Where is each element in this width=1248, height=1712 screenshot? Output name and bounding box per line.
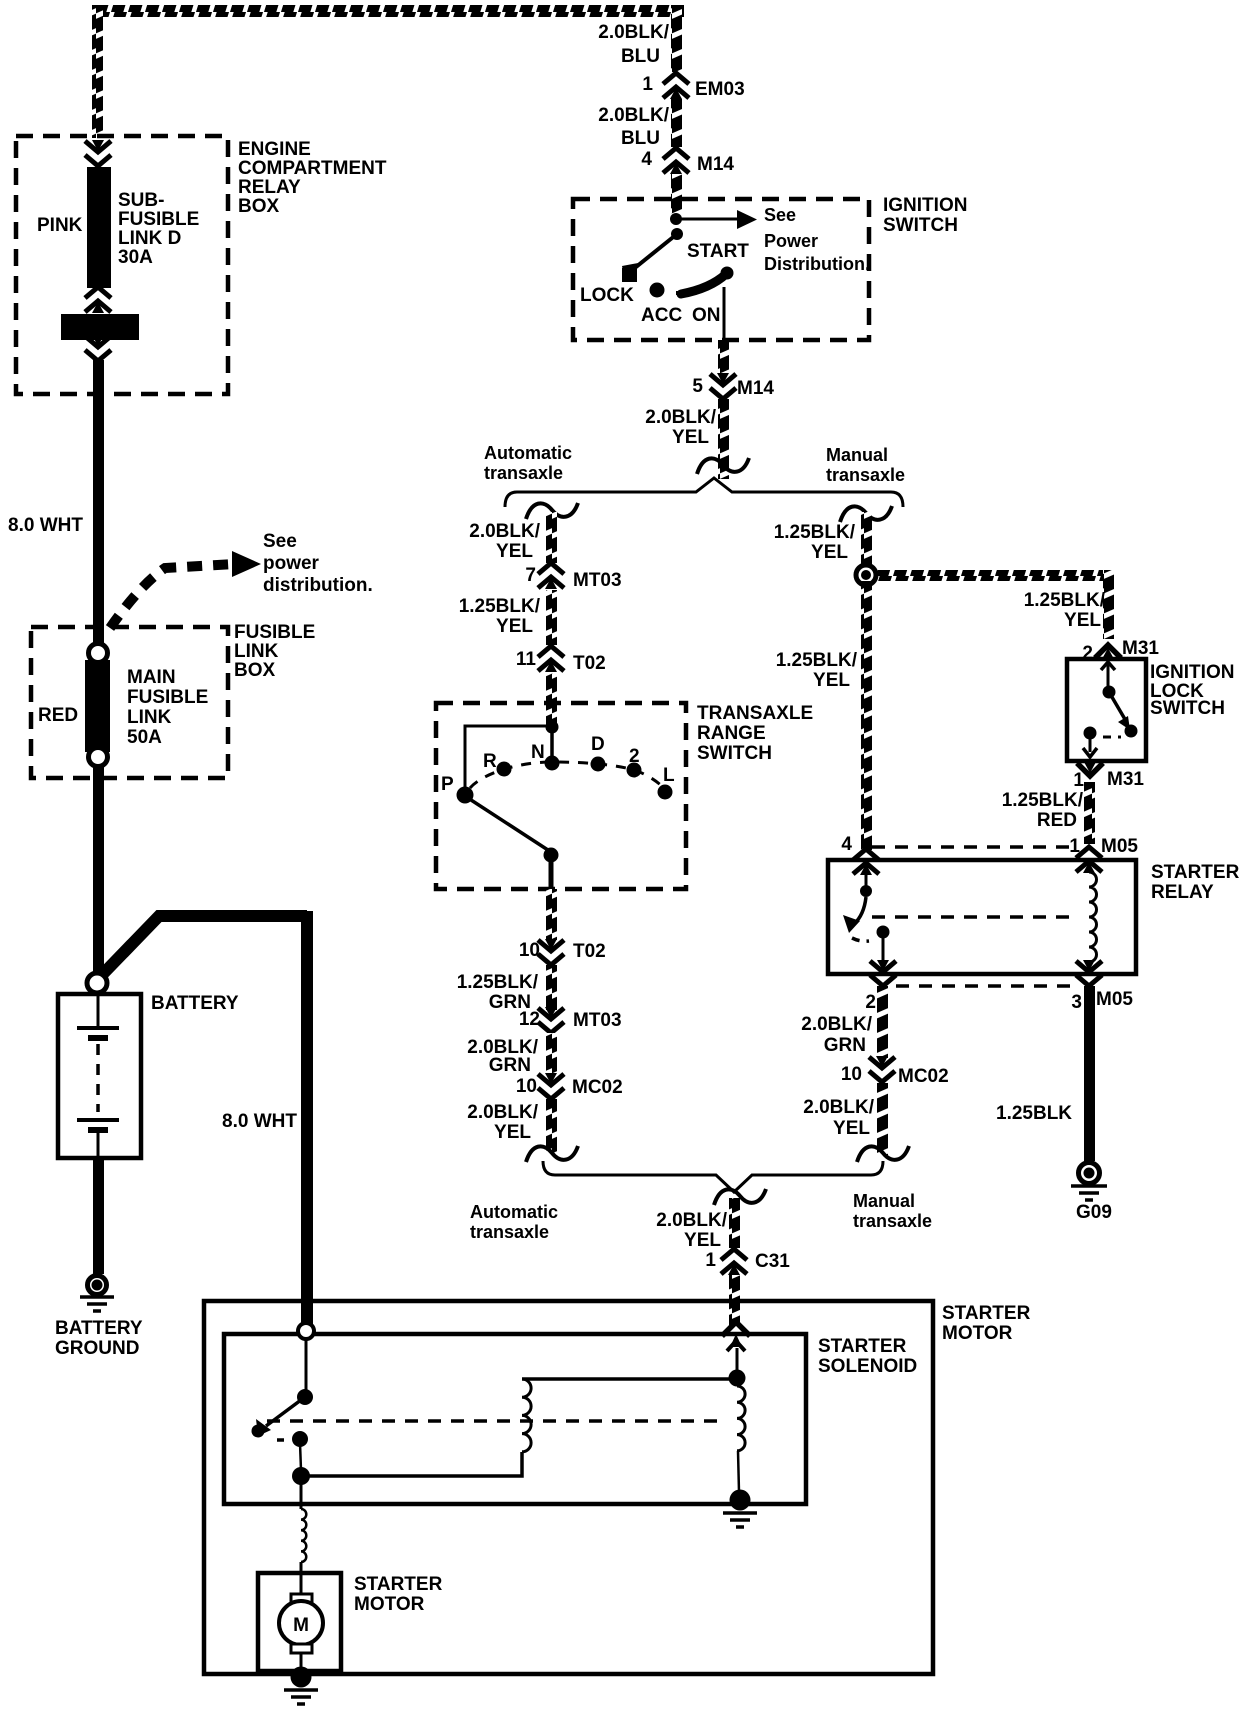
wire: hatched drop to engine compartment relay box xyxy=(92,5,103,138)
svg-text:SWITCH: SWITCH xyxy=(1150,698,1225,719)
svg-text:1.25BLK/: 1.25BLK/ xyxy=(774,522,856,543)
svg-text:2.0BLK/: 2.0BLK/ xyxy=(645,407,716,428)
svg-text:2.0BLK/: 2.0BLK/ xyxy=(598,105,669,126)
wire: junction to P contact xyxy=(465,726,552,790)
svg-text:BATTERY: BATTERY xyxy=(55,1318,143,1339)
sub-fusible link D 30A (PINK) xyxy=(87,167,111,288)
svg-text:2.0BLK/: 2.0BLK/ xyxy=(469,521,540,542)
svg-text:MAIN: MAIN xyxy=(127,667,176,688)
svg-text:distribution.: distribution. xyxy=(263,575,373,596)
svg-text:M14: M14 xyxy=(737,378,774,399)
svg-text:12: 12 xyxy=(519,1009,540,1030)
break symbol bottom of automatic branch xyxy=(526,1146,578,1162)
svg-text:8.0 WHT: 8.0 WHT xyxy=(222,1111,297,1132)
svg-text:MOTOR: MOTOR xyxy=(942,1323,1013,1344)
svg-text:1.25BLK/: 1.25BLK/ xyxy=(1024,590,1106,611)
motor brush bottom xyxy=(291,1644,312,1653)
dashed contact arc P-R-N-D-2-L xyxy=(470,762,665,789)
svg-text:YEL: YEL xyxy=(811,542,848,563)
wire: 2.0BLK/YEL automatic branch xyxy=(546,512,557,563)
connector chevron into solenoid (C31 wire) xyxy=(722,1322,750,1336)
svg-text:RELAY: RELAY xyxy=(238,177,301,198)
svg-text:Manual: Manual xyxy=(853,1191,915,1211)
wire: 2.0BLK/GRN xyxy=(546,1033,557,1075)
wire: battery negative to ground xyxy=(93,1158,104,1274)
wire: hatched to ignition lock switch (horizontal) xyxy=(866,570,1114,581)
wire: 8.0 WHT branch to starter solenoid (diagonal+horizontal) xyxy=(99,916,307,978)
battery xyxy=(58,994,141,1158)
svg-text:STARTER: STARTER xyxy=(1151,862,1240,883)
dashed link pin4 to pin1 xyxy=(872,845,1076,849)
svg-text:LINK: LINK xyxy=(127,707,172,728)
dashed pin2 to pin3 link xyxy=(896,984,1080,988)
motor ground xyxy=(291,1667,312,1688)
break symbol bottom of manual branch xyxy=(857,1146,909,1162)
wire: 1.25BLK/RED to starter relay pin 1 xyxy=(1084,782,1095,844)
svg-text:2.0BLK/: 2.0BLK/ xyxy=(467,1102,538,1123)
connector chevron into relay pin 4 xyxy=(853,849,879,875)
svg-text:50A: 50A xyxy=(127,727,162,748)
svg-text:SWITCH: SWITCH xyxy=(883,215,958,236)
starter solenoid box xyxy=(224,1334,806,1504)
svg-text:4: 4 xyxy=(641,149,652,170)
svg-text:RED: RED xyxy=(38,705,78,726)
svg-text:1.25BLK/: 1.25BLK/ xyxy=(457,972,539,993)
solenoid pull-in coil circuit xyxy=(301,1452,522,1476)
wire: hatched drop to ignition lock switch xyxy=(1103,570,1114,639)
contact 2 xyxy=(627,763,642,778)
wire: 2.0BLK/BLU hatched drop to ignition switch xyxy=(671,5,682,72)
contact L xyxy=(658,785,673,800)
wire: 8.0 WHT vertical down to starter solenoid xyxy=(301,911,313,1330)
wire: junction to N contact xyxy=(550,727,554,762)
connector chevron relay pin 2 xyxy=(870,960,896,986)
dashed plunger link xyxy=(267,1419,726,1423)
svg-text:BATTERY: BATTERY xyxy=(151,993,239,1014)
svg-text:YEL: YEL xyxy=(496,616,533,637)
svg-text:FUSIBLE: FUSIBLE xyxy=(127,687,208,708)
svg-text:YEL: YEL xyxy=(494,1122,531,1143)
svg-text:IGNITION: IGNITION xyxy=(883,195,967,216)
svg-text:1: 1 xyxy=(705,1250,716,1271)
relay coil xyxy=(1089,872,1097,962)
wire: hatched into starter motor xyxy=(729,1275,740,1325)
svg-text:Distribution.: Distribution. xyxy=(764,254,870,274)
connector chevron relay pin 3 xyxy=(1076,960,1102,986)
svg-text:FUSIBLE: FUSIBLE xyxy=(118,209,199,230)
bus bar in relay box xyxy=(61,314,139,340)
svg-text:MC02: MC02 xyxy=(898,1066,949,1087)
svg-text:SOLENOID: SOLENOID xyxy=(818,1356,917,1377)
svg-text:STARTER: STARTER xyxy=(818,1336,907,1357)
ignition switch wiper arm to LOCK xyxy=(631,234,677,271)
svg-text:YEL: YEL xyxy=(496,541,533,562)
dashed armature link to coil xyxy=(872,915,1077,919)
svg-text:YEL: YEL xyxy=(813,670,850,691)
svg-text:M05: M05 xyxy=(1101,836,1138,857)
wire: solenoid output to starter motor xyxy=(300,1483,303,1509)
svg-text:C31: C31 xyxy=(755,1251,790,1272)
svg-text:GRN: GRN xyxy=(824,1035,866,1056)
svg-text:SUB-: SUB- xyxy=(118,190,164,211)
svg-text:See: See xyxy=(263,531,297,552)
ignition lock switch box xyxy=(1067,659,1146,761)
svg-text:2.0BLK/: 2.0BLK/ xyxy=(801,1014,872,1035)
svg-text:10: 10 xyxy=(516,1076,537,1097)
svg-text:LINK: LINK xyxy=(234,641,279,662)
svg-text:transaxle: transaxle xyxy=(484,463,563,483)
svg-text:PINK: PINK xyxy=(37,215,83,236)
motor M xyxy=(279,1601,323,1645)
svg-text:YEL: YEL xyxy=(684,1230,721,1251)
wire: into transaxle range switch xyxy=(546,673,557,730)
svg-text:BLU: BLU xyxy=(621,128,660,149)
svg-text:M31: M31 xyxy=(1122,638,1159,659)
battery ground symbol xyxy=(88,1276,107,1295)
engine compartment relay box (dashed) xyxy=(16,136,228,394)
wire: 2.0BLK/GRN from relay pin 2 xyxy=(877,986,888,1058)
svg-text:2.0BLK/: 2.0BLK/ xyxy=(656,1210,727,1231)
svg-text:1.25BLK/: 1.25BLK/ xyxy=(459,596,541,617)
relay contact to pin 2 xyxy=(877,926,890,939)
svg-text:YEL: YEL xyxy=(833,1118,870,1139)
break symbol below merge xyxy=(714,1189,766,1205)
ignition lock switch contacts xyxy=(1101,662,1115,670)
wire: 2.0BLK/YEL below M14 xyxy=(718,399,729,479)
wire: 8.0 WHT from fusible link to battery xyxy=(93,767,104,975)
svg-text:MC02: MC02 xyxy=(572,1077,623,1098)
svg-text:1: 1 xyxy=(642,74,653,95)
wire: 1.25BLK/YEL between MT03 and T02 xyxy=(546,590,557,645)
break symbol on 2.0BLK/YEL xyxy=(697,458,749,474)
svg-text:30A: 30A xyxy=(118,247,153,268)
svg-text:M31: M31 xyxy=(1107,769,1144,790)
svg-text:P: P xyxy=(441,774,454,795)
svg-text:IGNITION: IGNITION xyxy=(1150,662,1234,683)
svg-text:T02: T02 xyxy=(573,653,606,674)
svg-text:1.25BLK/: 1.25BLK/ xyxy=(776,650,858,671)
svg-text:1.25BLK/: 1.25BLK/ xyxy=(1002,790,1084,811)
svg-text:3: 3 xyxy=(1071,992,1082,1013)
wire: into ignition switch xyxy=(671,174,682,214)
svg-text:7: 7 xyxy=(525,565,536,586)
wire: ignition switch START output xyxy=(723,287,726,340)
svg-text:2.0BLK/: 2.0BLK/ xyxy=(598,22,669,43)
svg-text:SWITCH: SWITCH xyxy=(697,743,772,764)
solenoid switch: terminal to contact xyxy=(305,1339,308,1392)
wire: 1.25BLK/YEL down to starter relay pin 4 xyxy=(861,581,872,851)
contact D xyxy=(591,757,606,772)
svg-text:GROUND: GROUND xyxy=(55,1338,139,1359)
svg-text:2.0BLK/: 2.0BLK/ xyxy=(803,1097,874,1118)
wire: fusible-link feed, top horizontal hatched bus xyxy=(92,5,684,17)
svg-text:ENGINE: ENGINE xyxy=(238,139,311,160)
svg-text:RED: RED xyxy=(1037,810,1077,831)
svg-text:COMPARTMENT: COMPARTMENT xyxy=(238,158,387,179)
solenoid coil ground xyxy=(730,1490,751,1511)
ground G09 xyxy=(1079,1163,1100,1184)
contact N xyxy=(545,756,560,771)
svg-text:Automatic: Automatic xyxy=(470,1202,558,1222)
branch bracket: automatic / manual transaxle split xyxy=(505,478,903,507)
wire: 1.25BLK/YEL manual branch xyxy=(861,512,872,569)
svg-text:L: L xyxy=(663,765,675,786)
svg-text:LOCK: LOCK xyxy=(580,285,634,306)
battery positive terminal xyxy=(87,973,107,993)
svg-text:STARTER: STARTER xyxy=(354,1574,443,1595)
svg-text:power: power xyxy=(263,553,320,574)
junction ring manual branch xyxy=(856,565,876,585)
svg-text:10: 10 xyxy=(519,940,540,961)
svg-text:RELAY: RELAY xyxy=(1151,882,1214,903)
contact ACC xyxy=(650,283,665,298)
fusible link box (dashed) xyxy=(31,627,228,778)
svg-text:Manual: Manual xyxy=(826,445,888,465)
svg-text:ACC: ACC xyxy=(641,305,682,326)
svg-text:5: 5 xyxy=(692,376,703,397)
contact arc ACC-ON-START xyxy=(681,274,726,294)
svg-text:T02: T02 xyxy=(573,941,606,962)
svg-text:FUSIBLE: FUSIBLE xyxy=(234,622,315,643)
dashed arrow: see power distribution xyxy=(110,564,234,628)
svg-text:YEL: YEL xyxy=(1064,610,1101,631)
wire: 2.0BLK/YEL to starter C31 xyxy=(729,1198,740,1248)
svg-text:R: R xyxy=(483,751,497,772)
svg-text:RANGE: RANGE xyxy=(697,723,766,744)
starter motor outer box xyxy=(204,1301,933,1674)
svg-text:M: M xyxy=(293,1615,309,1636)
wire: 2.0BLK/YEL to merge (manual) xyxy=(877,1083,888,1155)
svg-text:Automatic: Automatic xyxy=(484,443,572,463)
svg-text:LINK D: LINK D xyxy=(118,228,181,249)
contact R xyxy=(497,762,512,777)
svg-text:M14: M14 xyxy=(697,154,734,175)
svg-text:1: 1 xyxy=(1073,770,1084,791)
break symbol top of automatic branch xyxy=(526,503,578,519)
wire: hatched below range switch xyxy=(546,889,557,940)
svg-text:8.0 WHT: 8.0 WHT xyxy=(8,515,83,536)
arrow: see power distribution (ignition switch) xyxy=(676,218,738,221)
svg-text:BLU: BLU xyxy=(621,46,660,67)
break symbol top of manual branch xyxy=(840,506,892,522)
wire: 1.25BLK/GRN xyxy=(546,965,557,1010)
svg-text:Power: Power xyxy=(764,231,818,251)
svg-text:1.25BLK: 1.25BLK xyxy=(996,1103,1072,1124)
svg-text:BOX: BOX xyxy=(238,196,280,217)
svg-text:2: 2 xyxy=(865,992,876,1013)
svg-text:11: 11 xyxy=(516,649,537,670)
relay switch: pin4 to armature xyxy=(865,872,868,886)
connector chevrons below bus bar xyxy=(85,335,111,361)
svg-text:2: 2 xyxy=(629,746,640,767)
contact P xyxy=(457,787,474,804)
svg-text:transaxle: transaxle xyxy=(826,465,905,485)
svg-text:MT03: MT03 xyxy=(573,570,622,591)
motor brush top xyxy=(291,1594,312,1603)
svg-text:transaxle: transaxle xyxy=(853,1211,932,1231)
merge bracket: automatic / manual to starter xyxy=(543,1161,883,1192)
main fusible link 50A (RED) xyxy=(85,660,110,752)
svg-text:MOTOR: MOTOR xyxy=(354,1594,425,1615)
wire: 2.0BLK/BLU between EM03 and M14 xyxy=(671,99,682,147)
svg-text:4: 4 xyxy=(841,834,852,855)
svg-text:BOX: BOX xyxy=(234,660,276,681)
svg-text:GRN: GRN xyxy=(489,1055,531,1076)
starter relay box xyxy=(828,860,1136,974)
svg-text:TRANSAXLE: TRANSAXLE xyxy=(697,703,813,724)
ignition switch box (dashed) xyxy=(573,199,869,340)
starter motor box xyxy=(258,1573,341,1671)
svg-text:10: 10 xyxy=(841,1064,862,1085)
solenoid hold-in coil xyxy=(737,1386,745,1451)
wire: 8.0 WHT from relay box down to fusible link box xyxy=(93,360,104,652)
svg-text:STARTER: STARTER xyxy=(942,1303,1031,1324)
svg-text:G09: G09 xyxy=(1076,1202,1112,1223)
wire: range switch output xyxy=(549,855,554,889)
wire: 2.0BLK/YEL to merge xyxy=(546,1099,557,1154)
svg-text:START: START xyxy=(687,241,749,262)
svg-text:M05: M05 xyxy=(1096,989,1133,1010)
wire: hatched below ignition switch xyxy=(718,340,729,375)
battery feed terminal on solenoid xyxy=(298,1323,314,1339)
svg-text:YEL: YEL xyxy=(672,427,709,448)
svg-text:transaxle: transaxle xyxy=(470,1222,549,1242)
wire: 1.25BLK from relay pin 3 to ground xyxy=(1084,986,1095,1161)
connector chevrons into sub-fusible link xyxy=(85,140,111,166)
svg-text:MT03: MT03 xyxy=(573,1010,622,1031)
connector chevrons below sub-fusible link xyxy=(85,287,111,313)
svg-text:ON: ON xyxy=(692,305,721,326)
svg-text:EM03: EM03 xyxy=(695,79,745,100)
svg-text:N: N xyxy=(531,742,545,763)
range switch movable arm P to output xyxy=(468,798,551,852)
node: range switch input junction xyxy=(546,721,559,734)
svg-text:D: D xyxy=(591,734,605,755)
transaxle range switch box (dashed) xyxy=(436,703,686,889)
svg-text:See: See xyxy=(764,205,796,225)
node: hold-in coil junction xyxy=(729,1370,746,1387)
node: ignition switch common xyxy=(670,213,682,225)
